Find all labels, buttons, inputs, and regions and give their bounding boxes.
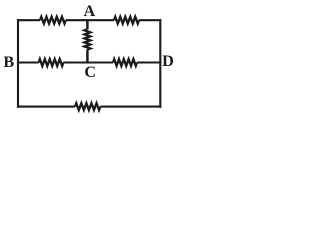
resistor C-D	[113, 59, 137, 66]
wire vertical branch A upper wire	[86, 19, 89, 29]
resistor top-right	[114, 17, 139, 24]
wire top edge segment 2	[66, 19, 114, 21]
svg-text:B: B	[3, 53, 14, 71]
wire middle line B-C segment	[17, 61, 39, 63]
resistor bottom	[75, 103, 100, 110]
resistor A-C vertical	[85, 29, 91, 49]
resistor top-left	[40, 17, 66, 24]
wire left edge	[17, 19, 19, 108]
svg-text:C: C	[84, 63, 96, 81]
wire top edge segment 1	[17, 19, 40, 21]
svg-text:A: A	[83, 2, 95, 20]
wire middle line C-D segment	[137, 61, 161, 63]
wire middle line C segment	[63, 61, 113, 63]
wire top edge segment 3	[139, 19, 161, 21]
resistor B-C	[39, 59, 64, 66]
wire bottom edge segment 1	[17, 106, 75, 108]
svg-text:D: D	[162, 52, 174, 70]
wire bottom edge segment 2	[100, 106, 161, 108]
wire vertical branch C lower wire	[86, 50, 89, 64]
wire right edge	[159, 19, 161, 108]
